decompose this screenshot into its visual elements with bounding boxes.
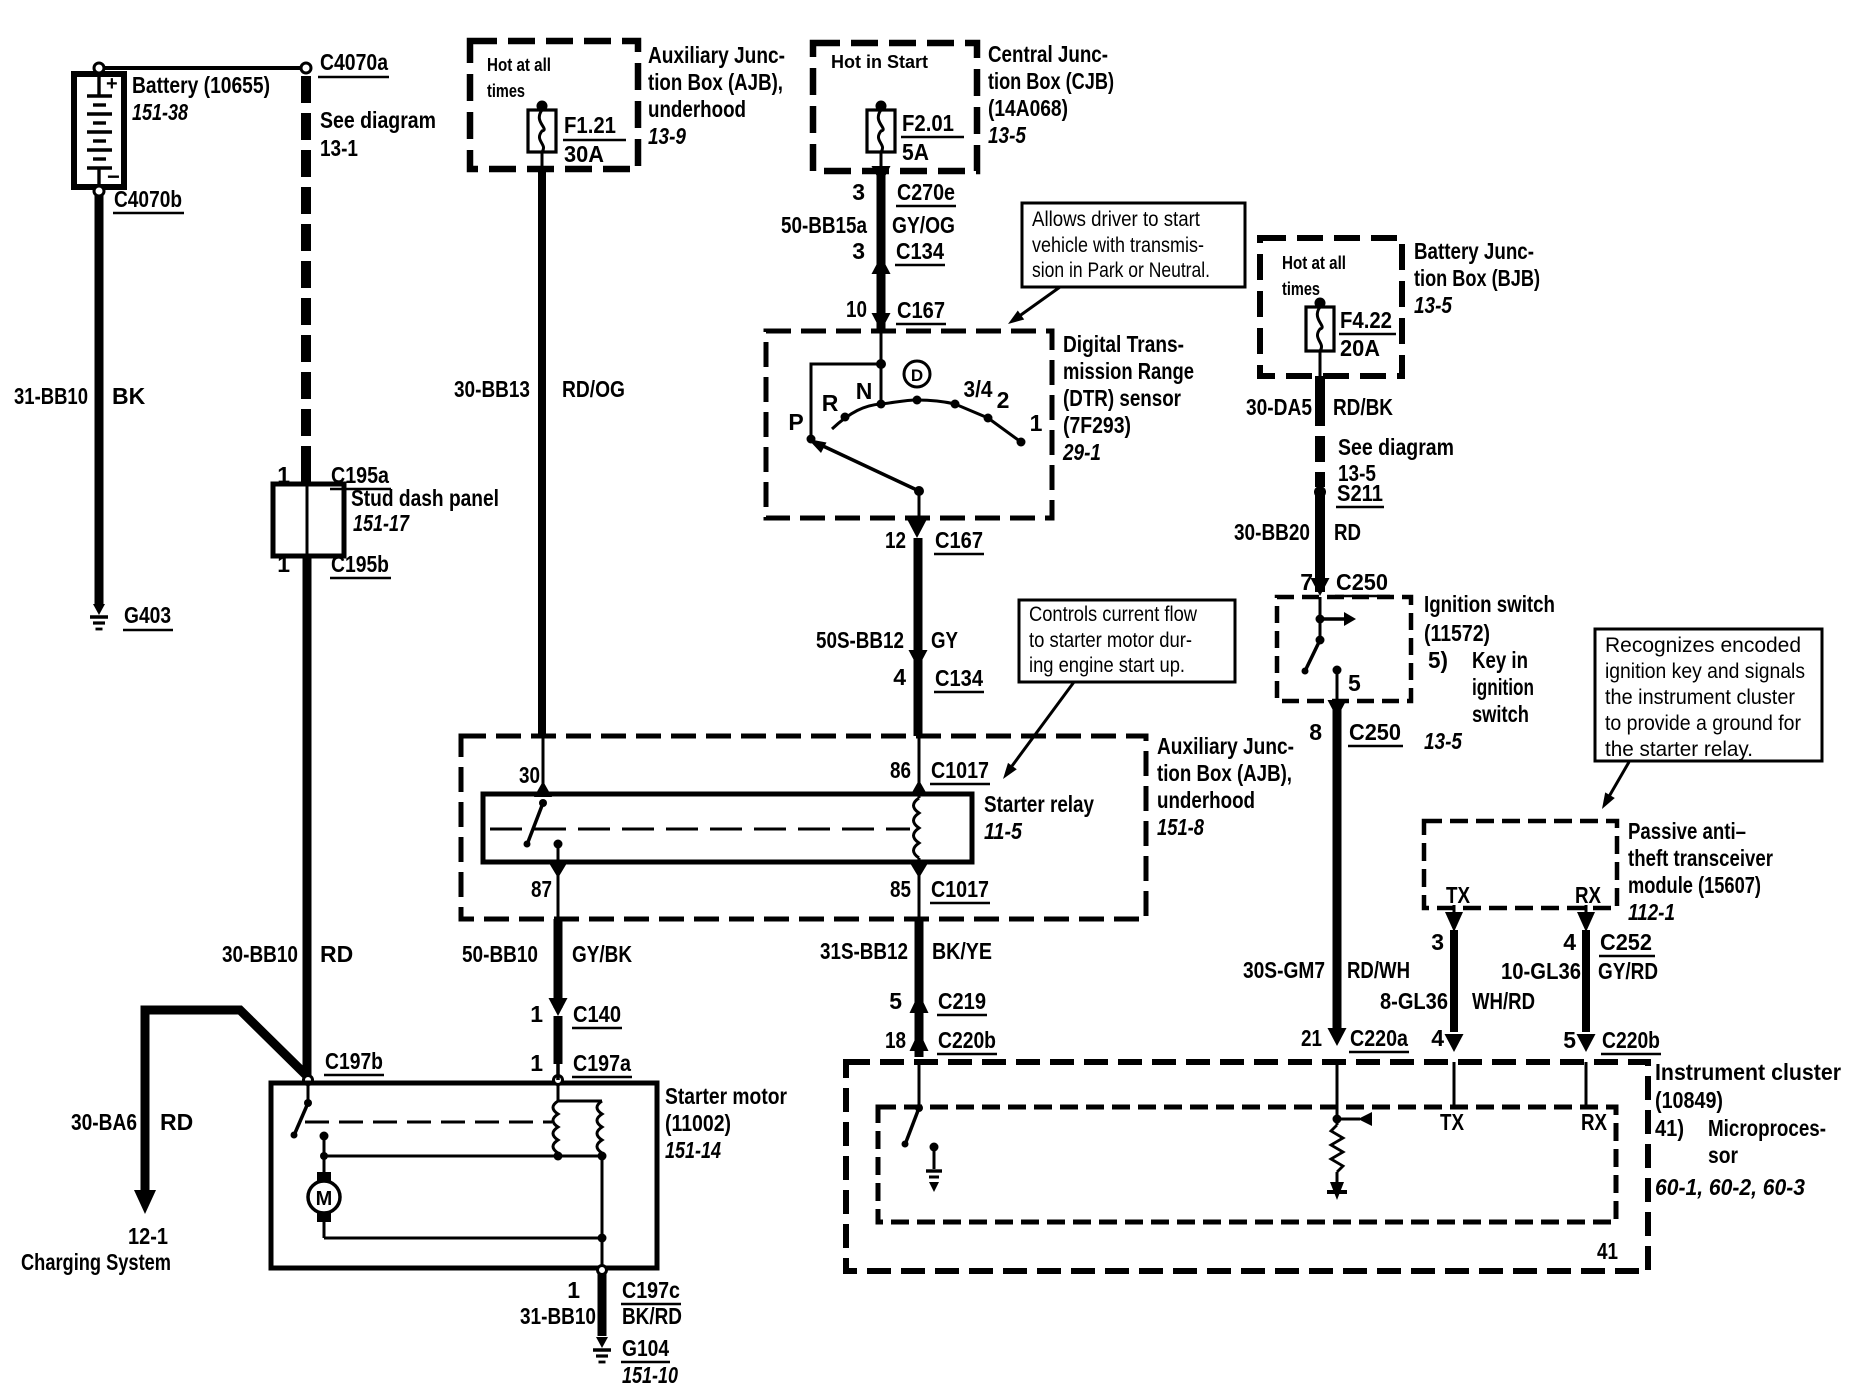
connector C167 (lower) [885, 520, 984, 554]
label Starter relay 11-5 [984, 791, 1094, 844]
svg-text:RD/WH: RD/WH [1347, 957, 1410, 983]
note recognizes encoded ignition key [1595, 629, 1822, 761]
svg-text:underhood: underhood [648, 96, 746, 122]
cluster key-in resistor [1327, 1062, 1372, 1200]
svg-text:13-9: 13-9 [648, 123, 686, 149]
connector C134 (lower) [893, 650, 984, 692]
svg-text:ignition key and signals: ignition key and signals [1605, 660, 1805, 683]
connector C219 [889, 988, 987, 1015]
svg-text:C219: C219 [938, 988, 986, 1014]
svg-text:C197a: C197a [573, 1050, 631, 1076]
svg-text:Hot at all: Hot at all [1282, 253, 1346, 273]
wire 31-BB10 BK battery negative [14, 196, 146, 604]
svg-text:F2.01: F2.01 [902, 110, 954, 136]
svg-text:30: 30 [519, 762, 540, 788]
svg-text:41: 41 [1597, 1238, 1618, 1264]
svg-text:N: N [856, 378, 873, 404]
svg-text:theft transceiver: theft transceiver [1628, 845, 1773, 871]
svg-text:5): 5) [1428, 647, 1448, 673]
stud dash panel [273, 484, 344, 556]
svg-text:Starter relay: Starter relay [984, 791, 1094, 817]
connector C270e [852, 166, 956, 206]
svg-text:(DTR) sensor: (DTR) sensor [1063, 385, 1181, 411]
svg-text:2: 2 [997, 387, 1010, 413]
label 12-1 Charging System [21, 1223, 171, 1275]
DTR contact arc [832, 396, 1026, 447]
svg-text:C140: C140 [573, 1001, 621, 1027]
svg-text:C4070a: C4070a [320, 49, 388, 75]
auxiliary junction box (AJB) underhood box [461, 736, 1146, 919]
svg-text:Hot in Start: Hot in Start [831, 52, 928, 72]
label Battery (10655) 151-38 [132, 72, 270, 125]
svg-text:sion in Park or Neutral.: sion in Park or Neutral. [1032, 259, 1210, 282]
svg-text:(11002): (11002) [665, 1110, 731, 1136]
svg-text:30-BA6: 30-BA6 [71, 1109, 137, 1135]
svg-text:1: 1 [277, 551, 290, 577]
DTR input wire and node [811, 331, 886, 436]
svg-text:RX: RX [1581, 1109, 1608, 1135]
svg-text:31-BB10: 31-BB10 [520, 1303, 596, 1329]
svg-text:8: 8 [1309, 719, 1322, 745]
svg-text:G104: G104 [622, 1335, 669, 1361]
svg-text:Instrument cluster: Instrument cluster [1655, 1059, 1841, 1085]
svg-text:30S-GM7: 30S-GM7 [1243, 957, 1325, 983]
wire 50S-BB12 GY [816, 538, 958, 736]
svg-text:86: 86 [890, 757, 911, 783]
connector C195a [277, 462, 391, 489]
wire 30-BA6 RD branch to charging system [71, 1010, 308, 1214]
svg-text:Allows driver to start: Allows driver to start [1032, 208, 1200, 231]
fuse F1.21 30A [528, 101, 626, 170]
ignition switch contacts [1302, 597, 1362, 701]
connector C197c [567, 1266, 681, 1305]
fuse F4.22 20A [1306, 298, 1396, 377]
svg-text:TX: TX [1446, 882, 1471, 908]
svg-text:G403: G403 [124, 602, 171, 628]
svg-text:+: + [106, 73, 118, 95]
wire 31S-BB12 BK/YE [820, 919, 992, 1057]
svg-text:F4.22: F4.22 [1340, 307, 1392, 333]
connector C140 [530, 998, 622, 1028]
svg-text:31S-BB12: 31S-BB12 [820, 938, 908, 964]
svg-text:underhood: underhood [1157, 787, 1255, 813]
svg-text:Ignition switch: Ignition switch [1424, 591, 1555, 617]
svg-text:30-BB10: 30-BB10 [222, 941, 298, 967]
svg-text:12: 12 [885, 527, 906, 553]
svg-text:C252: C252 [1600, 929, 1652, 955]
svg-text:mission Range: mission Range [1063, 358, 1194, 384]
svg-text:(11572): (11572) [1424, 620, 1490, 646]
svg-text:41): 41) [1655, 1115, 1684, 1141]
starter mechanical link (dashed) [305, 1121, 552, 1124]
cluster ground switch [902, 1062, 943, 1192]
connector C4070b label [113, 186, 184, 213]
arrow from note to PATS module [1602, 762, 1629, 809]
ground G403 [90, 602, 173, 630]
svg-text:BK/RD: BK/RD [622, 1303, 682, 1329]
fuse F2.01 5A [867, 101, 964, 172]
wire 30S-GM7 RD/WH [1243, 703, 1410, 1030]
svg-text:RX: RX [1575, 882, 1602, 908]
svg-text:20A: 20A [1340, 335, 1380, 361]
svg-text:R: R [822, 390, 839, 416]
passive anti-theft transceiver module box [1424, 821, 1617, 908]
svg-text:50-BB15a: 50-BB15a [781, 212, 867, 238]
battery junction box fuse holder (hot at all times) [1260, 238, 1402, 376]
svg-text:12-1: 12-1 [128, 1223, 168, 1249]
wire 50-BB15a GY/OG [877, 171, 886, 331]
svg-text:Auxiliary Junc-: Auxiliary Junc- [1157, 733, 1294, 759]
svg-text:M: M [316, 1188, 333, 1210]
svg-text:switch: switch [1472, 701, 1529, 727]
DTR output pin 12 [918, 491, 921, 518]
svg-text:4: 4 [1563, 929, 1576, 955]
svg-text:50-BB10: 50-BB10 [462, 941, 538, 967]
svg-text:C1017: C1017 [931, 876, 989, 902]
svg-text:ignition: ignition [1472, 674, 1534, 700]
svg-text:5: 5 [1348, 670, 1361, 696]
wire to C197a [554, 1016, 563, 1080]
svg-text:50S-BB12: 50S-BB12 [816, 627, 904, 653]
relay pin 30 wire [519, 736, 552, 797]
svg-text:tion Box (CJB): tion Box (CJB) [988, 68, 1114, 94]
svg-text:C4070b: C4070b [114, 186, 182, 212]
svg-text:C195b: C195b [331, 551, 389, 577]
svg-text:to starter motor dur-: to starter motor dur- [1029, 629, 1192, 652]
svg-text:1: 1 [530, 1050, 543, 1076]
svg-text:1: 1 [567, 1277, 580, 1303]
connector C197b [304, 1048, 385, 1085]
connector C220b (4) [1431, 1025, 1463, 1052]
svg-text:10: 10 [846, 296, 867, 322]
svg-text:30-DA5: 30-DA5 [1246, 394, 1312, 420]
svg-text:Key in: Key in [1472, 647, 1528, 673]
svg-text:151-10: 151-10 [622, 1362, 678, 1388]
PATS RX pin 4 wire 10-GL36 GY/RD connector C252 [1501, 905, 1658, 1032]
instrument cluster microprocessor box [878, 1107, 1618, 1264]
arrow from note to DTR sensor [1008, 287, 1060, 324]
starter relay box [483, 794, 972, 862]
svg-text:GY/OG: GY/OG [892, 212, 955, 238]
svg-text:C197c: C197c [622, 1277, 680, 1303]
wire 30-BB10 RD [222, 556, 353, 1076]
svg-text:RD/OG: RD/OG [562, 376, 625, 402]
wire 30-BB20 RD [1234, 492, 1361, 592]
svg-text:GY/BK: GY/BK [572, 941, 632, 967]
svg-text:C250: C250 [1349, 719, 1401, 745]
svg-text:(10849): (10849) [1655, 1087, 1723, 1113]
starter solenoid pull-in winding [553, 1084, 602, 1161]
svg-text:Recognizes encoded: Recognizes encoded [1605, 634, 1801, 657]
svg-text:151-38: 151-38 [132, 99, 188, 125]
label Battery Junction Box (BJB) 13-5 [1414, 238, 1540, 318]
connector C220a (21) [1301, 1025, 1409, 1052]
svg-text:1: 1 [1030, 410, 1043, 436]
svg-text:Controls current flow: Controls current flow [1029, 603, 1198, 626]
svg-text:BK/YE: BK/YE [932, 938, 992, 964]
svg-text:RD: RD [160, 1109, 193, 1135]
svg-text:RD/BK: RD/BK [1333, 394, 1393, 420]
central junction box fuse holder (hot in start) [813, 43, 977, 171]
relay switch contact [524, 799, 563, 862]
svg-text:C197b: C197b [325, 1048, 383, 1074]
svg-text:151-14: 151-14 [665, 1137, 721, 1163]
svg-text:3: 3 [852, 238, 865, 264]
relay pin 86 [890, 757, 990, 796]
wire 30-DA5 RD/BK [1246, 376, 1393, 487]
relay pin 85 [890, 862, 990, 919]
svg-text:C1017: C1017 [931, 757, 989, 783]
ignition switch (11572) box [1277, 597, 1411, 701]
instrument cluster (10849) box [846, 1062, 1648, 1271]
svg-text:5A: 5A [902, 139, 929, 165]
svg-text:87: 87 [531, 876, 552, 902]
starter solenoid fixed contact node [320, 1132, 329, 1173]
note controls current flow to starter motor [1019, 600, 1235, 682]
connector C134 (upper) [852, 238, 945, 274]
svg-text:sor: sor [1708, 1142, 1738, 1168]
connector C195b [277, 551, 391, 578]
svg-text:TX: TX [1440, 1109, 1465, 1135]
svg-text:ing engine start up.: ing engine start up. [1029, 654, 1185, 677]
connector C220b (5) [1563, 1027, 1661, 1054]
svg-text:C270e: C270e [897, 179, 955, 205]
svg-text:C167: C167 [935, 527, 983, 553]
svg-text:29-1: 29-1 [1062, 439, 1101, 465]
svg-text:13-5: 13-5 [1424, 728, 1463, 754]
svg-text:Battery Junc-: Battery Junc- [1414, 238, 1534, 264]
starter motor (11002) box [271, 1083, 657, 1268]
starter solenoid switch [291, 1084, 313, 1139]
svg-text:5: 5 [889, 988, 902, 1014]
svg-text:Microproces-: Microproces- [1708, 1115, 1826, 1141]
svg-text:151-17: 151-17 [353, 510, 410, 536]
wire 50-BB10 GY/BK [462, 919, 632, 1008]
connector C4070a [301, 49, 389, 77]
label Ignition switch (11572) 5) Key in ignition switch 13-5 [1424, 591, 1555, 754]
svg-text:3: 3 [1431, 929, 1444, 955]
svg-text:WH/RD: WH/RD [1472, 988, 1535, 1014]
wire battery positive to C4070a [104, 66, 300, 70]
svg-text:151-8: 151-8 [1157, 814, 1204, 840]
label See diagram 13-5 [1338, 434, 1454, 486]
svg-text:tion Box (AJB),: tion Box (AJB), [1157, 760, 1292, 786]
svg-text:tion Box (AJB),: tion Box (AJB), [648, 69, 783, 95]
svg-text:C220b: C220b [1602, 1027, 1660, 1053]
svg-text:C250: C250 [1336, 569, 1388, 595]
svg-text:to provide a ground for: to provide a ground for [1605, 712, 1801, 735]
label Auxiliary Junction Box (AJB) underhood 151-8 [1157, 733, 1294, 840]
svg-text:60-1, 60-2, 60-3: 60-1, 60-2, 60-3 [1655, 1174, 1805, 1200]
svg-text:4: 4 [893, 664, 906, 690]
svg-text:C167: C167 [897, 297, 945, 323]
svg-text:the starter relay.: the starter relay. [1605, 738, 1753, 761]
svg-text:C220a: C220a [1350, 1025, 1408, 1051]
svg-text:times: times [487, 81, 525, 101]
wire C4070a battery feed (dashed) [301, 76, 311, 484]
svg-text:RD: RD [320, 941, 353, 967]
svg-text:112-1: 112-1 [1628, 899, 1675, 925]
svg-text:P: P [788, 409, 803, 435]
svg-text:4: 4 [1431, 1025, 1444, 1051]
svg-text:13-1: 13-1 [320, 135, 358, 161]
svg-text:F1.21: F1.21 [564, 112, 616, 138]
svg-text:D: D [911, 366, 923, 385]
svg-text:tion Box (BJB): tion Box (BJB) [1414, 265, 1540, 291]
connector C250 (7) [1300, 569, 1390, 596]
starter motor M [308, 1172, 340, 1238]
starter internal node wires [320, 1152, 602, 1238]
svg-text:30-BB13: 30-BB13 [454, 376, 530, 402]
svg-text:Charging System: Charging System [21, 1249, 171, 1275]
svg-text:(7F293): (7F293) [1063, 412, 1131, 438]
label 50-BB15a GY/OG [781, 212, 955, 238]
connector C197a [530, 1050, 632, 1085]
relay mechanical link (dashed) [490, 828, 910, 831]
label Stud dash panel 151-17 [351, 485, 499, 536]
DTR wiper arm to P [807, 435, 925, 497]
svg-text:31-BB10: 31-BB10 [14, 383, 88, 409]
label Starter motor (11002) 151-14 [665, 1083, 787, 1163]
svg-text:C134: C134 [935, 665, 983, 691]
svg-text:Starter motor: Starter motor [665, 1083, 787, 1109]
svg-text:18: 18 [885, 1027, 906, 1053]
svg-text:See diagram: See diagram [1338, 434, 1454, 460]
starter solenoid hold-in winding [597, 1101, 607, 1266]
svg-text:Central Junc-: Central Junc- [988, 41, 1108, 67]
relay pin 87 wire [531, 862, 567, 919]
svg-text:GY: GY [931, 627, 958, 653]
label See diagram 13-1 [320, 107, 436, 161]
wire 31-BB10 BK/RD to ground [520, 1274, 682, 1336]
DTR position labels P R N D 3/4 2 1 [788, 361, 1042, 436]
digital transmission range (DTR) sensor box [766, 331, 1052, 518]
svg-text:Hot at all: Hot at all [487, 55, 551, 75]
label Passive anti-theft transceiver module (15607) 112-1 [1628, 818, 1773, 925]
svg-text:3: 3 [852, 179, 865, 205]
splice S211 [1314, 480, 1384, 507]
svg-text:Stud dash panel: Stud dash panel [351, 485, 499, 511]
svg-text:BK: BK [112, 383, 146, 409]
svg-text:RD: RD [1334, 519, 1361, 545]
svg-text:8-GL36: 8-GL36 [1380, 988, 1448, 1014]
svg-text:13-5: 13-5 [988, 122, 1027, 148]
svg-text:30-BB20: 30-BB20 [1234, 519, 1310, 545]
connector C167 (upper) [846, 296, 946, 331]
svg-text:85: 85 [890, 876, 911, 902]
svg-text:module (15607): module (15607) [1628, 872, 1761, 898]
svg-text:S211: S211 [1337, 480, 1383, 506]
auxiliary junction box fuse holder (hot at all times) [470, 41, 638, 169]
note allows driver to start vehicle in park or neutral [1022, 203, 1245, 287]
connector C250 (8) [1309, 700, 1403, 746]
svg-text:times: times [1282, 279, 1320, 299]
wire 30-BB13 RD/OG [454, 169, 625, 736]
svg-text:See diagram: See diagram [320, 107, 436, 133]
ground G104 [593, 1335, 678, 1388]
connector C220b (18) [885, 1027, 997, 1054]
svg-text:Digital Trans-: Digital Trans- [1063, 331, 1184, 357]
svg-text:30A: 30A [564, 141, 604, 167]
arrow from note to starter relay [1003, 682, 1074, 779]
label Auxiliary Junction Box (AJB) underhood 13-9 [648, 42, 785, 149]
svg-text:3/4: 3/4 [964, 376, 993, 402]
svg-text:1: 1 [530, 1001, 543, 1027]
svg-text:C220b: C220b [938, 1027, 996, 1053]
svg-text:Auxiliary Junc-: Auxiliary Junc- [648, 42, 785, 68]
svg-text:7: 7 [1300, 569, 1313, 595]
svg-text:the instrument cluster: the instrument cluster [1605, 686, 1795, 709]
svg-text:(14A068): (14A068) [988, 95, 1068, 121]
cluster TX RX inputs [1440, 1062, 1608, 1135]
svg-text:21: 21 [1301, 1025, 1322, 1051]
svg-text:5: 5 [1563, 1027, 1576, 1053]
battery (10655) [74, 63, 124, 196]
svg-text:13-5: 13-5 [1414, 292, 1453, 318]
svg-text:C134: C134 [896, 238, 944, 264]
label Central Junction Box (CJB) (14A068) 13-5 [988, 41, 1114, 148]
label Instrument cluster (10849) 41) Microprocessor 60-1 60-2 60-3 [1655, 1059, 1841, 1200]
svg-text:vehicle with transmis-: vehicle with transmis- [1032, 234, 1204, 257]
svg-text:GY/RD: GY/RD [1598, 958, 1658, 984]
PATS TX pin 3 wire 8-GL36 WH/RD [1380, 905, 1535, 1032]
relay coil [914, 736, 920, 862]
svg-text:Battery (10655): Battery (10655) [132, 72, 270, 98]
svg-text:10-GL36: 10-GL36 [1501, 958, 1581, 984]
svg-text:Passive anti–: Passive anti– [1628, 818, 1746, 844]
label Digital Transmission Range (DTR) sensor (7F293) 29-1 [1062, 331, 1194, 465]
svg-text:11-5: 11-5 [984, 818, 1023, 844]
